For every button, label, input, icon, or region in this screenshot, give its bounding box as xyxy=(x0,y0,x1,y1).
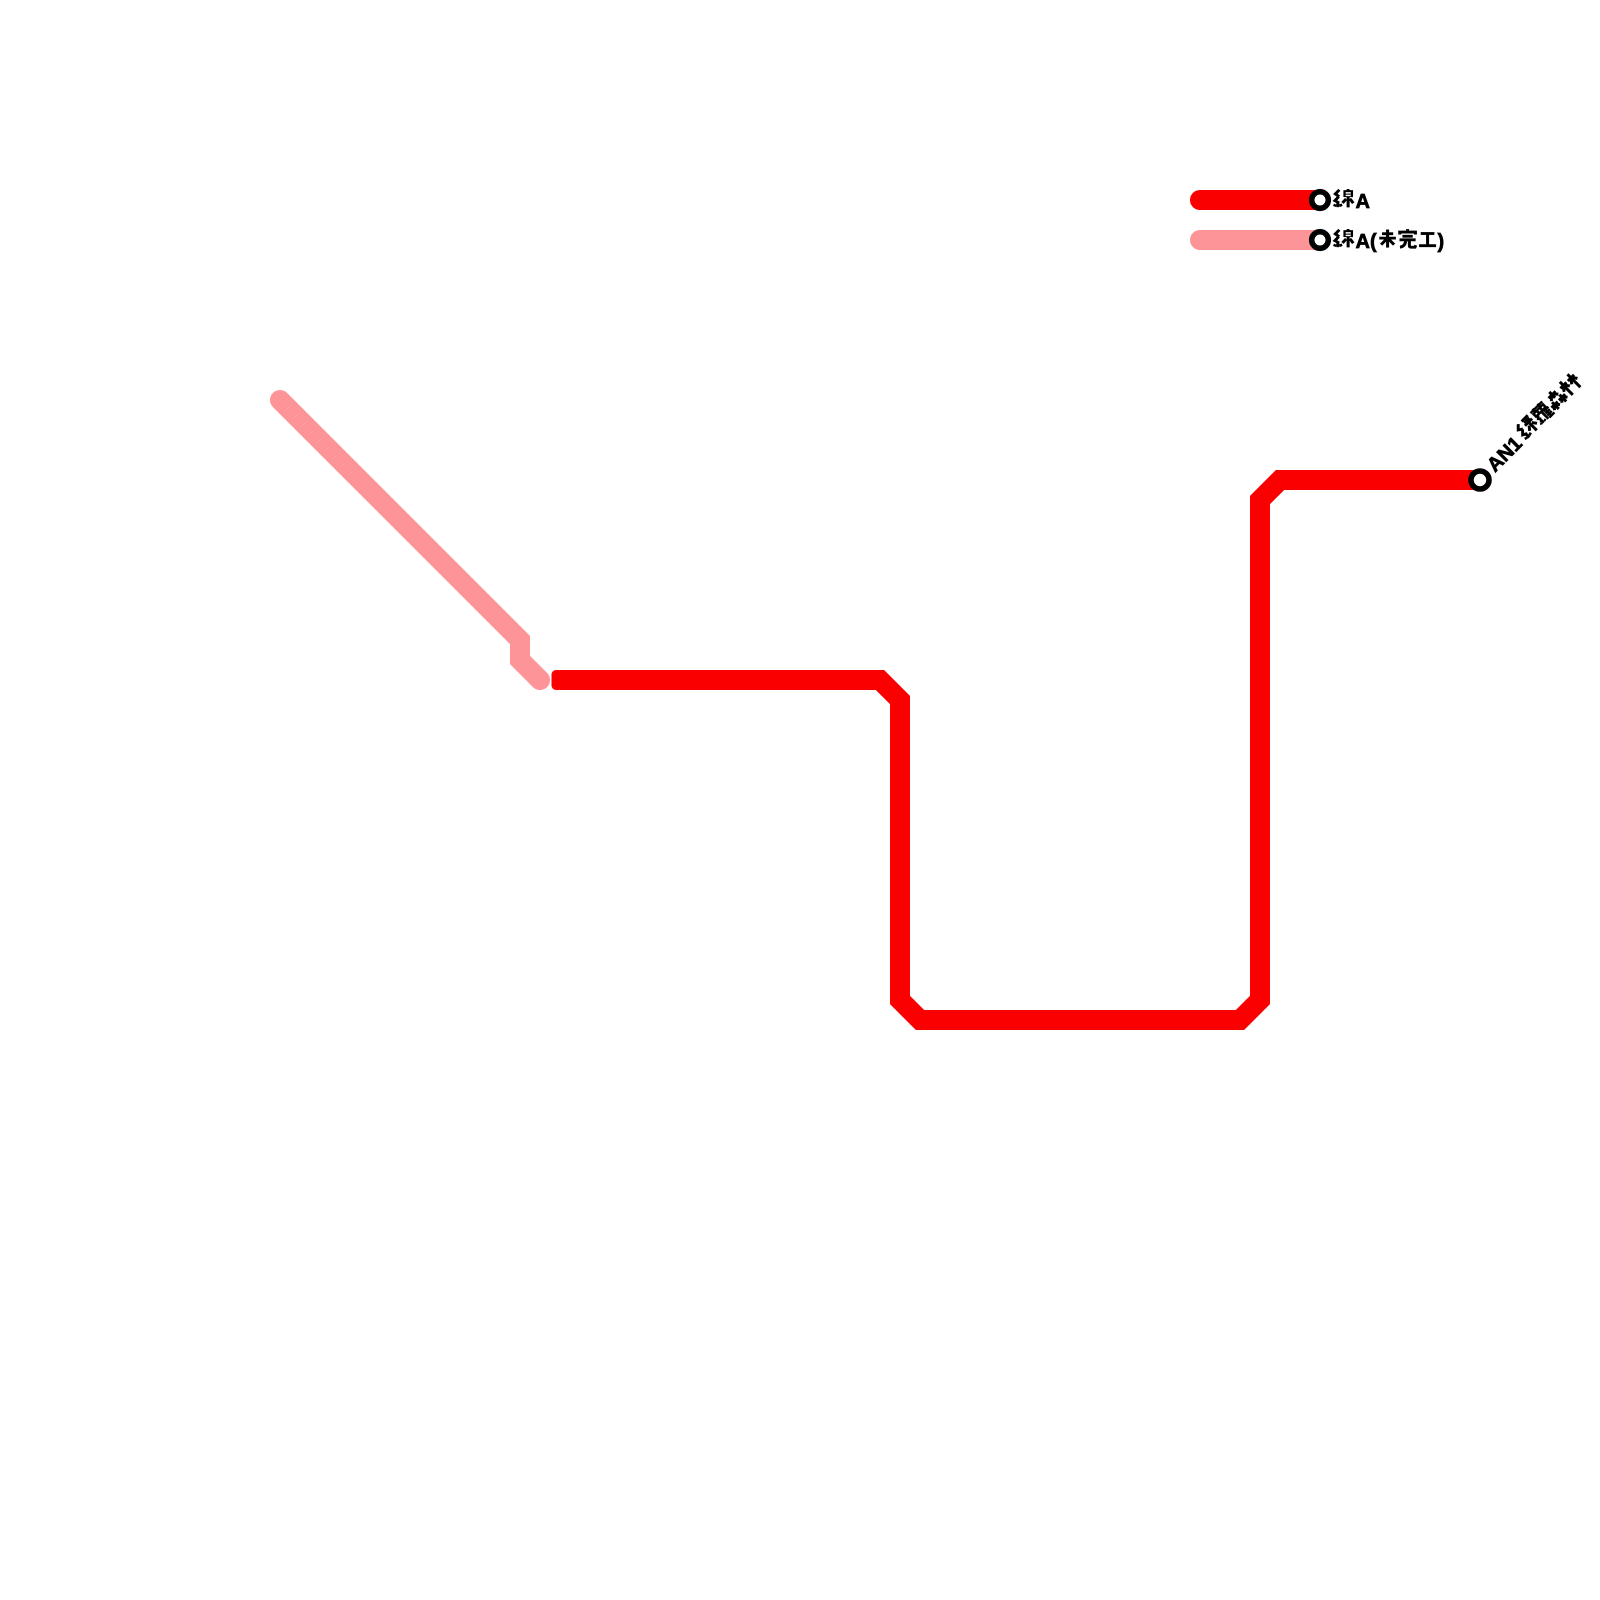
svg-text:A: A xyxy=(1356,191,1370,213)
svg-text:): ) xyxy=(1438,231,1445,253)
svg-text:A(: A( xyxy=(1356,231,1377,253)
